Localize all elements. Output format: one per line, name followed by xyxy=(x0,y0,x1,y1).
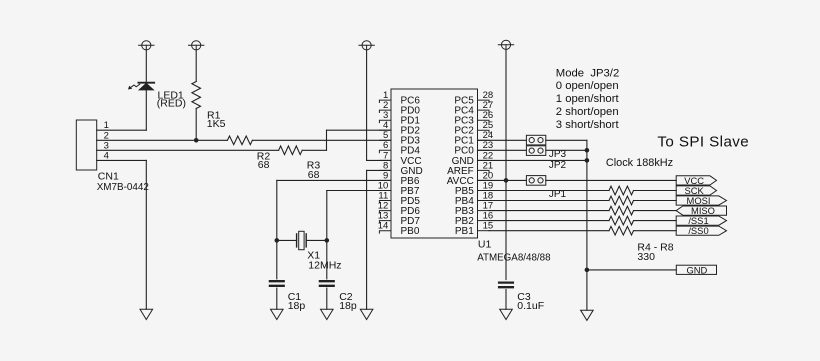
wire U1 pin10 PB7 xyxy=(327,190,391,192)
U1 pin 11 PD5 stub xyxy=(379,201,391,203)
crystal X1 12MHz xyxy=(297,231,307,249)
junction JP2/GND xyxy=(585,148,590,153)
U1 pin 15 PB1 stub xyxy=(478,230,490,232)
svg-text:0.1uF: 0.1uF xyxy=(517,300,544,312)
net flag /SS1 xyxy=(676,216,726,225)
svg-text:15: 15 xyxy=(483,221,494,232)
U1 pin 23 PC0 stub xyxy=(478,149,490,151)
wire R4 to SCK flag xyxy=(634,190,677,192)
U1 pin 5 PD3 stub xyxy=(379,139,391,141)
U1 pin 25 PC2 stub xyxy=(478,130,490,132)
svg-text:PB1: PB1 xyxy=(455,226,474,237)
junction AVCC xyxy=(504,178,509,183)
resistor R2 68 xyxy=(227,136,252,145)
svg-text:Mode JP3/2: Mode JP3/2 xyxy=(556,67,619,79)
node XTAL2 xyxy=(325,238,330,243)
resistor R4 330 xyxy=(609,186,634,195)
junction pin22/GND xyxy=(585,158,590,163)
svg-text:18p: 18p xyxy=(339,300,357,312)
svg-text:68: 68 xyxy=(308,169,320,181)
wire down to ground xyxy=(145,160,147,309)
net flag GND xyxy=(676,265,716,274)
wire U1 pin16 to R7 xyxy=(489,220,609,222)
wire to crystal left xyxy=(277,239,297,241)
wire U1 pin18 to R5 xyxy=(489,200,609,202)
power flag VCC (U1 pin7) xyxy=(359,41,374,50)
svg-text:68: 68 xyxy=(258,159,270,171)
wire GND down xyxy=(366,170,368,309)
wire U1 pin17 to R6 xyxy=(489,210,609,212)
svg-text:0 open/open: 0 open/open xyxy=(556,80,619,92)
wire U1 pin9 PB6 xyxy=(277,179,391,181)
wire U1 pin20 AVCC xyxy=(478,179,507,181)
jumper JP2 xyxy=(526,146,545,156)
U1 pin 18 PB4 stub xyxy=(478,200,490,202)
U1 pin 14 PB0 stub xyxy=(379,231,391,233)
wire U1 pin15 to R8 xyxy=(489,230,609,232)
jumper JP1 xyxy=(526,176,545,186)
wire to U1 pin4 xyxy=(327,129,392,131)
svg-text:ATMEGA8/48/88: ATMEGA8/48/88 xyxy=(477,253,551,264)
wire R6 to MISO flag xyxy=(634,210,677,212)
U1 pin 16 PB2 stub xyxy=(478,220,490,222)
ground (U1 pin8) xyxy=(360,309,373,319)
wire U1 pin24 PC1 to JP3 xyxy=(478,139,527,141)
wire to GND flag xyxy=(587,269,676,271)
wire AVCC to JP1 xyxy=(506,179,526,181)
wire U1 pin23 PC0 to JP2 xyxy=(478,149,527,151)
svg-text:To SPI Slave: To SPI Slave xyxy=(657,133,749,150)
wire CN1 pin2 to R2 xyxy=(97,139,228,141)
wire node to C1 xyxy=(276,240,278,279)
LED D1 LED1 (RED) xyxy=(128,83,154,90)
svg-text:XM7B-0442: XM7B-0442 xyxy=(97,182,149,193)
power flag VCC (LED) xyxy=(139,41,154,50)
resistor R1 1K5 xyxy=(192,82,201,109)
U1 pin 19 PB5 stub xyxy=(478,190,490,192)
wire crystal right xyxy=(306,239,327,241)
U1 pin 13 PD7 stub xyxy=(379,221,391,223)
svg-text:/SS0: /SS0 xyxy=(688,225,708,236)
wire power to R1 xyxy=(195,50,197,82)
jumper JP3 xyxy=(526,135,545,145)
svg-text:1 open/short: 1 open/short xyxy=(556,93,620,105)
wire C3 to ground xyxy=(505,290,507,310)
ground (CN1 pin4) xyxy=(140,309,153,319)
svg-text:PB0: PB0 xyxy=(401,226,420,237)
U1 pin 3 PD1 stub xyxy=(379,120,391,122)
svg-text:Clock 188kHz: Clock 188kHz xyxy=(606,157,673,169)
node XTAL1 xyxy=(275,238,280,243)
ground (C2) xyxy=(321,309,334,319)
wire down to XTAL1 node xyxy=(276,180,278,240)
wire U1 pin19 to R4 xyxy=(489,190,609,192)
wire R3 right xyxy=(302,149,326,151)
wire C2 to ground xyxy=(326,288,328,309)
U1 pin 24 PC1 stub xyxy=(478,139,490,141)
U1 pin 8 GND stub xyxy=(379,169,391,171)
wire jog up xyxy=(326,130,328,150)
svg-text:GND: GND xyxy=(686,264,707,275)
U1 pin 26 PC3 stub xyxy=(478,120,490,122)
svg-text:12MHz: 12MHz xyxy=(308,260,341,272)
svg-text:18p: 18p xyxy=(288,300,306,312)
U1 pin 20 AVCC stub xyxy=(478,179,490,181)
U1 pin 9 PB6 stub xyxy=(379,179,391,181)
power flag VCC (R1) xyxy=(189,41,204,50)
wire R2 to U1 pin5 xyxy=(252,139,391,141)
svg-text:3 short/short: 3 short/short xyxy=(556,119,620,131)
net flag MOSI xyxy=(676,196,726,205)
wire node to C2 xyxy=(326,240,328,279)
net flag SCK xyxy=(676,186,716,195)
wire CN1 pin4 xyxy=(97,159,147,161)
resistor R5 330 xyxy=(609,196,634,205)
wire JP2 to GND net xyxy=(546,149,587,151)
wire R1 to pin2 net xyxy=(195,109,197,141)
op-amp U1 ATMEGA8/48/88 MCU body xyxy=(391,89,478,238)
U1 pin 27 PC4 stub xyxy=(478,110,490,112)
U1 pin 10 PB7 stub xyxy=(379,190,391,192)
U1 pin 6 PD4 stub xyxy=(379,150,391,152)
wire U1 pin8 GND xyxy=(367,169,391,171)
wire U1 pin22 GND to GND net xyxy=(478,159,587,161)
svg-text:330: 330 xyxy=(637,251,655,263)
svg-text:U1: U1 xyxy=(478,239,492,251)
wire down to XTAL2 node xyxy=(326,191,328,241)
ground (C3) xyxy=(500,309,513,319)
resistor R8 330 xyxy=(609,226,634,235)
U1 pin 2 PD0 stub xyxy=(379,110,391,112)
U1 pin 28 PC5 stub xyxy=(478,100,490,102)
wire R7 to /SS1 flag xyxy=(634,220,677,222)
U1 pin 22 GND stub xyxy=(478,159,490,161)
net flag MISO xyxy=(676,206,726,215)
svg-text:2 short/open: 2 short/open xyxy=(556,106,619,118)
connector CN1 XM7B-0442 xyxy=(76,120,96,170)
U1 pin 7 VCC stub xyxy=(379,159,391,161)
wire R8 to /SS0 flag xyxy=(634,230,677,232)
wire VCC power down xyxy=(366,50,368,160)
junction GND flag xyxy=(585,268,590,273)
net flag /SS0 xyxy=(676,226,726,235)
svg-text:14: 14 xyxy=(378,221,389,232)
svg-text:CN1: CN1 xyxy=(98,170,119,182)
junction R1/CN1-2 xyxy=(194,138,199,143)
U1 pin 12 PD6 stub xyxy=(379,211,391,213)
svg-text:4: 4 xyxy=(104,150,109,161)
wire LED anode down to pin1 net xyxy=(145,90,147,130)
wire C1 to ground xyxy=(276,288,278,309)
wire AVCC power down to C3 xyxy=(505,49,507,279)
resistor R6 330 xyxy=(609,206,634,215)
svg-text:JP2: JP2 xyxy=(549,160,567,171)
resistor R3 68 xyxy=(279,146,303,155)
ground (C1) xyxy=(271,309,284,319)
ground (GND net) xyxy=(581,310,594,320)
U1 pin 1 PC6 stub xyxy=(379,100,391,102)
U1 pin 21 AREF stub xyxy=(478,170,490,172)
U1 pin 4 PD2 stub xyxy=(379,129,391,131)
svg-text:(RED): (RED) xyxy=(157,98,186,110)
net flag VCC xyxy=(676,176,716,185)
capacitor C1 18p xyxy=(270,281,284,286)
svg-text:1K5: 1K5 xyxy=(207,118,226,130)
resistor R7 330 xyxy=(609,216,634,225)
power flag AVCC xyxy=(498,40,513,49)
wire to U1 pin7 VCC xyxy=(367,159,391,161)
wire power to LED cathode xyxy=(145,50,147,83)
wire JP3 to GND net xyxy=(546,139,587,141)
wire JP1 to VCC flag xyxy=(546,179,676,181)
wire GND net vertical xyxy=(586,140,588,310)
capacitor C2 18p xyxy=(320,281,334,286)
wire CN1 pin3 to R3 xyxy=(97,149,279,151)
U1 pin 17 PB3 stub xyxy=(478,210,490,212)
capacitor C3 0.1uF xyxy=(499,283,513,288)
wire CN1 pin1 xyxy=(97,129,147,131)
wire R5 to MOSI flag xyxy=(634,200,677,202)
